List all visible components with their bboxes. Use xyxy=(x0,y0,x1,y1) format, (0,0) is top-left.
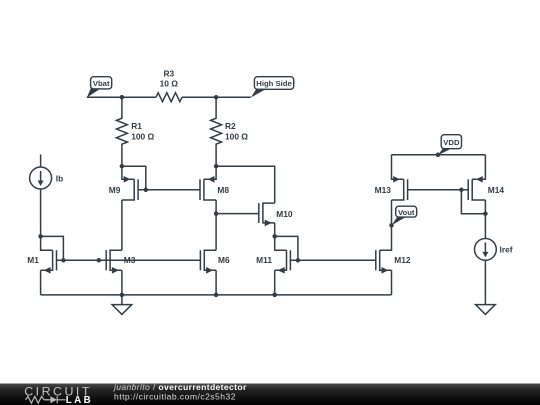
svg-text:10 Ω: 10 Ω xyxy=(160,78,179,88)
svg-text:100 Ω: 100 Ω xyxy=(131,131,154,141)
svg-text:100 Ω: 100 Ω xyxy=(225,131,248,141)
svg-text:http://circuitlab.com/c2s5h32: http://circuitlab.com/c2s5h32 xyxy=(114,392,236,402)
transistor M9 xyxy=(109,166,146,250)
footer attribution text xyxy=(113,382,247,402)
wire M14 diode loop xyxy=(461,190,485,214)
junction M10 source / M11 drain xyxy=(272,234,277,239)
wire Vbat to R3 left xyxy=(87,96,156,98)
transistor M8 xyxy=(200,166,229,250)
wire M8 drain to M10 gate xyxy=(216,213,259,215)
current source Iref xyxy=(475,214,513,305)
wire gate rail M1-M3-M6 xyxy=(57,259,201,261)
flag High Side xyxy=(251,77,294,98)
svg-text:juanbrito / overcurrentdetecto: juanbrito / overcurrentdetector xyxy=(113,382,247,392)
wire gate M9-M8 xyxy=(138,189,200,191)
resistor R2 xyxy=(211,97,249,166)
wire gate M13-M14 xyxy=(408,189,469,191)
current source Ib xyxy=(30,155,64,237)
svg-text:R2: R2 xyxy=(225,121,236,131)
junction M11 source on rail xyxy=(272,293,277,298)
junction R3-R2 High Side node xyxy=(214,95,219,100)
footer bar xyxy=(0,384,540,405)
transistor M6 xyxy=(200,250,230,295)
junction M8 drain / M10 gate xyxy=(214,211,219,216)
svg-text:M14: M14 xyxy=(488,185,505,195)
svg-text:R1: R1 xyxy=(131,121,142,131)
junction Vout node M13-M12 xyxy=(389,223,394,228)
wire gate M11-M12 xyxy=(290,259,375,261)
flag VDD xyxy=(438,135,462,156)
footer logo CIRCUIT LAB xyxy=(24,385,93,405)
wire R3 right to High Side xyxy=(182,96,251,98)
svg-text:High Side: High Side xyxy=(256,79,292,88)
transistor M1 xyxy=(27,236,63,295)
svg-text:LAB: LAB xyxy=(66,395,93,405)
svg-text:M3: M3 xyxy=(124,255,136,265)
svg-text:M8: M8 xyxy=(217,185,229,195)
flag Vbat xyxy=(87,77,112,98)
ground symbol right xyxy=(476,305,496,315)
junction M11 gate tie xyxy=(296,258,301,263)
junction M14 gate tie xyxy=(459,188,464,193)
resistor R3 xyxy=(156,69,182,102)
svg-text:R3: R3 xyxy=(163,69,174,79)
junction VDD tap xyxy=(436,153,441,158)
junction M14 drain / Iref xyxy=(483,211,488,216)
transistor M3 xyxy=(106,250,136,295)
transistor M11 xyxy=(256,236,298,295)
ground symbol left xyxy=(112,295,132,315)
svg-text:Vout: Vout xyxy=(398,208,415,217)
svg-text:M1: M1 xyxy=(27,255,39,265)
svg-text:M12: M12 xyxy=(394,255,411,265)
transistor M12 xyxy=(376,225,411,295)
svg-text:VDD: VDD xyxy=(443,138,460,147)
junction R2-M8 node B xyxy=(214,164,219,169)
transistor M14 xyxy=(468,155,504,214)
junction ground tap xyxy=(120,293,125,298)
svg-text:M13: M13 xyxy=(375,185,392,195)
svg-text:Vbat: Vbat xyxy=(93,79,110,88)
junction R1-M9 node A xyxy=(120,164,125,169)
transistor M13 xyxy=(375,155,408,226)
transistor M10 xyxy=(259,203,293,236)
flag Vout xyxy=(392,206,417,225)
svg-text:M11: M11 xyxy=(256,255,272,265)
svg-text:Ib: Ib xyxy=(56,174,63,184)
junction M9 gate tie xyxy=(144,188,149,193)
svg-text:M6: M6 xyxy=(218,255,230,265)
VDD rail xyxy=(392,154,486,156)
junction Ib-M1 drain xyxy=(38,234,43,239)
resistor R1 xyxy=(116,97,154,166)
wire M8 source to M10 drain xyxy=(216,166,275,203)
svg-text:M9: M9 xyxy=(109,185,121,195)
svg-text:M10: M10 xyxy=(276,209,293,219)
svg-text:Iref: Iref xyxy=(500,245,513,255)
junction M6 source on rail xyxy=(214,293,219,298)
ground rail xyxy=(41,294,392,296)
junction Vbat-R1 node xyxy=(120,95,125,100)
junction M1 gate tie xyxy=(61,258,66,263)
junction gate rail joint xyxy=(97,258,102,263)
